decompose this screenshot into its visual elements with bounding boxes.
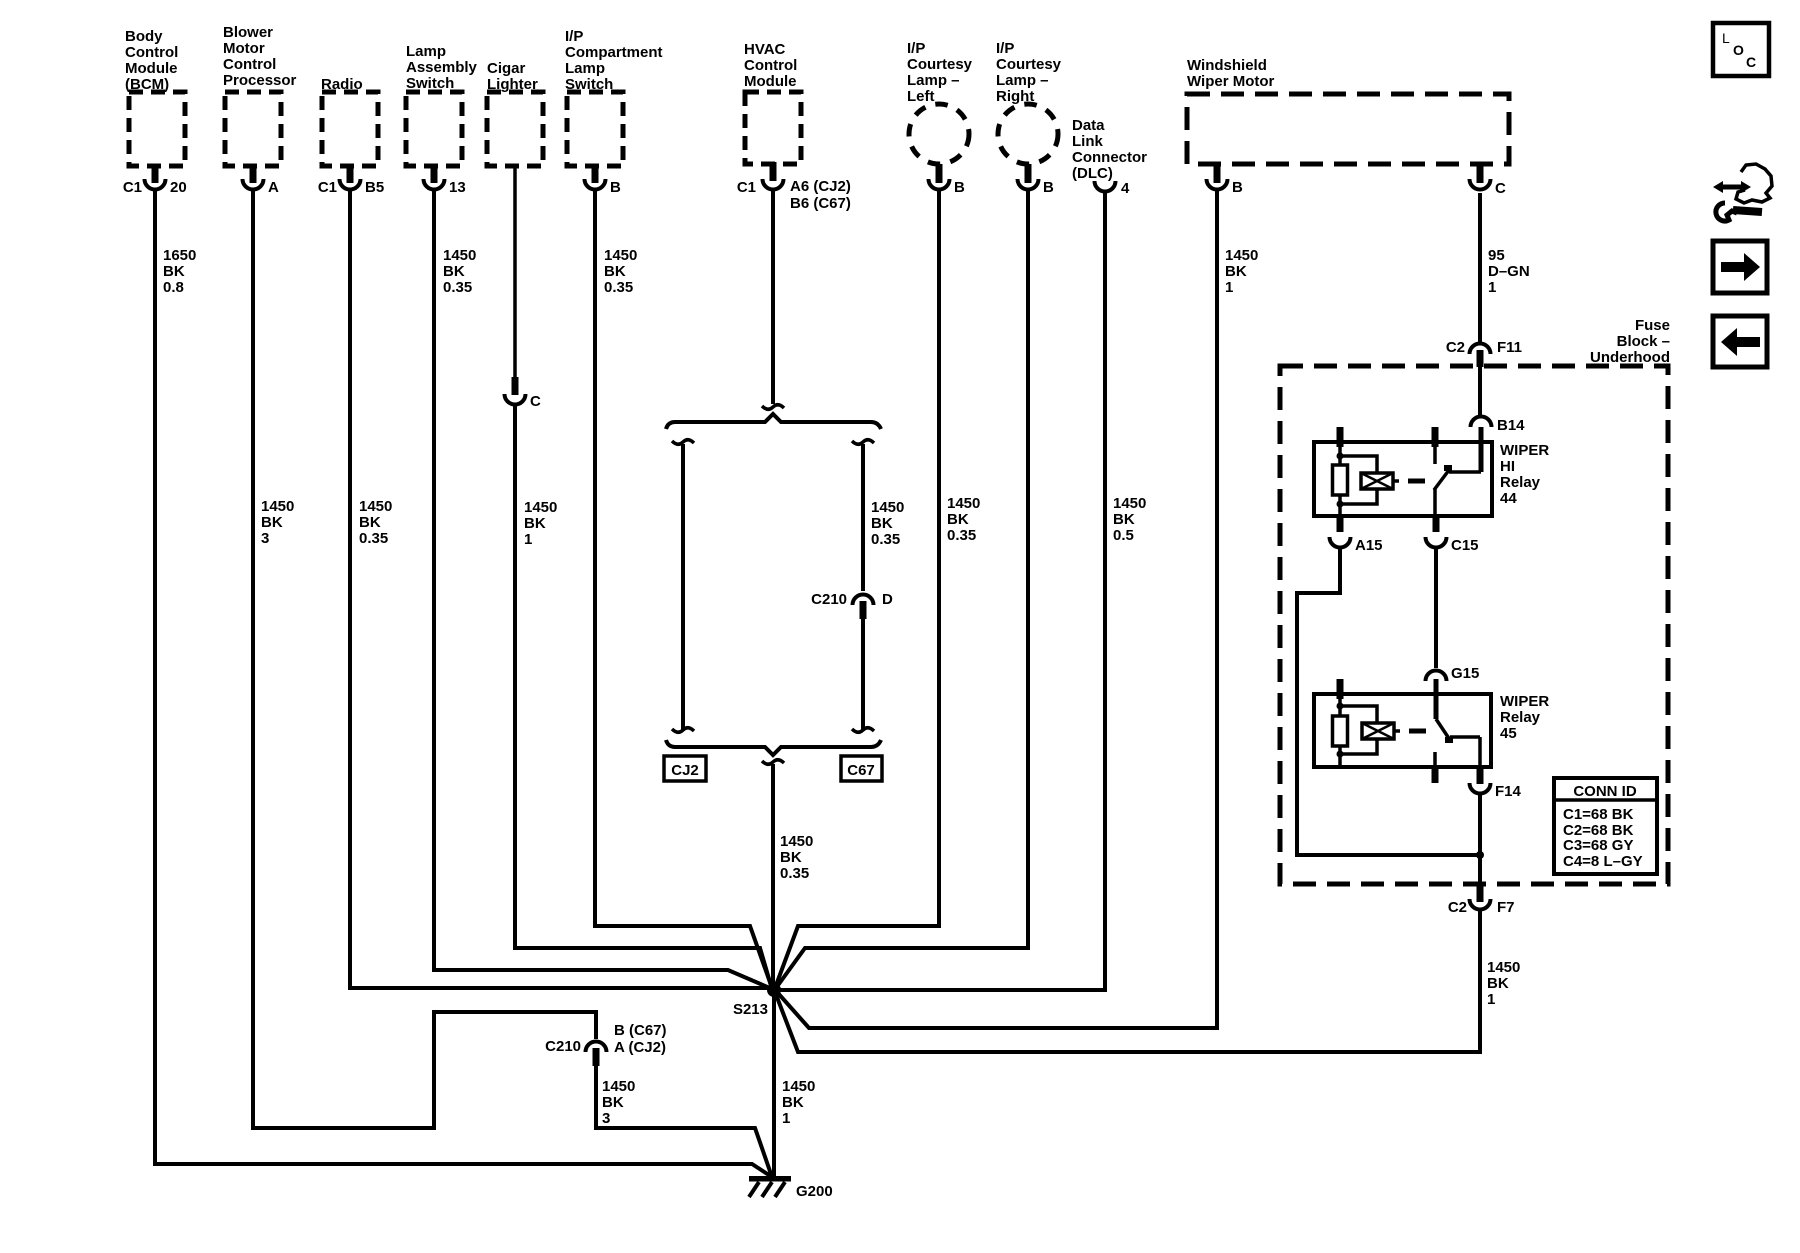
svg-text:Wiper Motor: Wiper Motor [1187,73,1275,90]
svg-text:HVAC: HVAC [744,41,786,58]
wire A15 to F14 junction [1297,548,1478,855]
wire F7 to S213 [775,910,1480,1052]
svg-text:BK: BK [782,1094,804,1111]
wire label 1450 BK 3 [261,498,294,547]
svg-text:B: B [610,179,621,196]
svg-text:BK: BK [443,263,465,280]
connector C2 pin F11 [1446,339,1522,367]
svg-text:Control: Control [744,57,797,74]
wire courtesy right to S213 [776,191,1028,988]
svg-text:B: B [1232,179,1243,196]
relay 44 dashed link [1408,479,1425,484]
courtesy left connector pin B [929,164,966,196]
svg-text:Block –: Block – [1617,333,1670,350]
svg-text:1650: 1650 [163,247,196,264]
svg-text:Control: Control [223,56,276,73]
C67 tag box [841,756,882,781]
svg-text:Relay: Relay [1500,474,1541,491]
HVAC connector C1 pins A6/B6 [737,162,851,212]
connector pin C15 [1426,537,1479,554]
svg-text:0.35: 0.35 [871,531,900,548]
svg-text:C1: C1 [123,179,142,196]
relay 44 pin C15 stub [1433,516,1440,532]
svg-text:1: 1 [1488,279,1496,296]
wire merged HVAC to S213 [771,764,775,988]
radio box [322,92,378,166]
svg-text:4: 4 [1121,180,1130,197]
relay 44 switch [1432,427,1482,516]
svg-text:BK: BK [602,1094,624,1111]
wire label 1450 BK 0.35 radio [359,498,392,547]
svg-text:C: C [1746,54,1756,70]
svg-text:0.5: 0.5 [1113,527,1134,544]
svg-text:0.35: 0.35 [359,530,388,547]
svg-text:BK: BK [359,514,381,531]
wire cigar lighter upper [513,166,517,378]
relay 45 pin F14 stub [1477,767,1484,784]
svg-text:Windshield: Windshield [1187,57,1267,74]
wire C67 branch upper [861,444,865,591]
connector pin A15 [1330,537,1383,554]
svg-text:Body: Body [125,28,163,45]
wire C210 to ground [596,1065,772,1177]
brace merge bottom [666,740,881,755]
svg-text:Lamp: Lamp [406,43,446,60]
relay 44 coil circuit [1337,442,1378,516]
svg-text:1450: 1450 [871,499,904,516]
svg-text:D–GN: D–GN [1488,263,1530,280]
svg-text:1450: 1450 [524,499,557,516]
body control module (BCM) label [125,28,178,93]
svg-text:1: 1 [1225,279,1233,296]
wire radio to S213 [350,191,768,988]
relay 45 dashed link [1409,729,1426,734]
diagnostic icon arrows and wrench [1713,164,1772,221]
HVAC control module box [745,92,801,164]
wire label 1450 BK 1 F7 [1487,959,1520,1008]
svg-text:3: 3 [602,1110,610,1127]
wire break curl CJ2 branch top [672,440,694,445]
svg-text:CONN ID: CONN ID [1573,783,1637,800]
svg-text:BK: BK [1225,263,1247,280]
wire label 1450 BK 0.35 courtesy [947,495,980,544]
svg-text:20: 20 [170,179,187,196]
svg-text:1450: 1450 [443,247,476,264]
left arrow icon box [1713,316,1767,367]
svg-text:B5: B5 [365,179,384,196]
wire F11 to B14 [1478,367,1482,416]
wire S213 to ground [772,990,776,1176]
wire label 1450 BK 0.35 C67 branch [871,499,904,548]
relay 44 pin A15 stub [1337,516,1344,532]
wire lamp switch to S213 [434,191,772,989]
radio label [321,76,363,93]
svg-text:1450: 1450 [602,1078,635,1095]
svg-text:1450: 1450 [782,1078,815,1095]
svg-text:A (CJ2): A (CJ2) [614,1039,666,1056]
wire label 1450 BK 3 lower [602,1078,635,1127]
svg-text:BK: BK [524,515,546,532]
blower motor control processor label [223,24,297,89]
svg-text:I/P: I/P [907,40,925,57]
DLC connector pin 4 [1095,180,1131,197]
svg-text:Cigar: Cigar [487,60,526,77]
svg-text:HI: HI [1500,458,1515,475]
svg-text:95: 95 [1488,247,1505,264]
svg-text:BK: BK [163,263,185,280]
svg-text:A15: A15 [1355,537,1383,554]
connector pin G15 [1426,665,1480,682]
svg-text:Lamp: Lamp [565,60,605,77]
BCM connector C1 pin 20 [123,164,187,196]
svg-text:I/P: I/P [565,28,583,45]
I/P courtesy lamp right label [996,40,1062,105]
svg-text:C: C [530,393,541,410]
svg-text:1: 1 [524,531,532,548]
wire label 1450 BK 0.35 lamp [443,247,476,296]
svg-text:Left: Left [907,88,935,105]
svg-text:C210: C210 [811,591,847,608]
relay 45 box [1314,694,1491,767]
connector C2 pin F7 [1448,884,1515,916]
I/P switch connector pin B [585,164,622,196]
svg-text:0.35: 0.35 [604,279,633,296]
I/P courtesy lamp right circle [998,104,1058,164]
wire label 95 D-GN 1 [1488,247,1530,296]
svg-text:Compartment: Compartment [565,44,663,61]
svg-text:G15: G15 [1451,665,1479,682]
svg-text:Fuse: Fuse [1635,317,1670,334]
relay 44 box [1314,442,1492,516]
I/P courtesy lamp left circle [909,104,969,164]
CONN ID table [1554,778,1657,874]
lamp assembly switch label [406,43,478,92]
svg-text:L: L [1722,30,1730,46]
svg-text:C2: C2 [1446,339,1465,356]
wire break curl HVAC [762,405,784,410]
svg-text:Relay: Relay [1500,709,1541,726]
svg-text:BK: BK [1487,975,1509,992]
courtesy right connector pin B [1018,164,1055,196]
wire cigar to S213 [515,405,772,989]
lamp switch connector pin 13 [424,164,466,196]
wire C67 branch lower [861,618,865,731]
svg-text:BK: BK [261,514,283,531]
svg-text:B (C67): B (C67) [614,1022,667,1039]
svg-text:Assembly: Assembly [406,59,478,76]
svg-text:G200: G200 [796,1183,833,1200]
windshield wiper motor box [1187,94,1509,164]
right arrow icon box [1713,241,1767,293]
wire break curl CJ2 branch bottom [672,728,694,733]
I/P courtesy lamp left label [907,40,973,105]
relay 45 coil circuit [1337,694,1378,767]
svg-text:0.35: 0.35 [780,865,809,882]
svg-text:CJ2: CJ2 [671,762,699,779]
svg-text:0.35: 0.35 [947,527,976,544]
blower motor control processor box [225,92,281,166]
wiper motor connector pin B [1207,162,1244,196]
svg-text:1450: 1450 [1487,959,1520,976]
relay 44 resistor [1333,465,1348,495]
svg-text:BK: BK [947,511,969,528]
wire label 1450 BK 0.35 ip switch [604,247,637,296]
svg-text:B14: B14 [1497,417,1525,434]
cigar lighter label [487,60,538,93]
svg-text:Module: Module [744,73,797,90]
wire B14 into relay 44 [1479,427,1484,472]
splice S213 [733,983,781,1018]
wire courtesy left to S213 [775,191,939,988]
svg-text:WIPER: WIPER [1500,693,1549,710]
svg-text:Underhood: Underhood [1590,349,1670,366]
svg-text:C3=68 GY: C3=68 GY [1563,837,1633,854]
svg-text:I/P: I/P [996,40,1014,57]
svg-text:Link: Link [1072,133,1103,150]
svg-text:0.8: 0.8 [163,279,184,296]
data link connector label [1072,117,1147,182]
svg-text:S213: S213 [733,1001,768,1018]
wire label 1450 BK 1 cigar [524,499,557,548]
svg-text:BK: BK [871,515,893,532]
connector pin F14 [1470,783,1522,800]
svg-text:O: O [1733,42,1744,58]
svg-text:Courtesy: Courtesy [907,56,973,73]
lamp assembly switch box [406,92,462,166]
connector C210 pins B/A [545,1022,666,1066]
relay 45 coil feed pin top [1337,679,1344,699]
svg-text:C210: C210 [545,1038,581,1055]
svg-text:C: C [1495,180,1506,197]
svg-text:45: 45 [1500,725,1517,742]
wire blower to C210 [253,191,596,1128]
svg-text:1450: 1450 [780,833,813,850]
connector C210 pin D [811,591,893,619]
I/P compartment lamp switch box [567,92,623,166]
I/P compartment lamp switch label [565,28,663,93]
relay 45 label WIPER Relay 45 [1500,693,1549,742]
svg-text:D: D [882,591,893,608]
svg-text:Lamp –: Lamp – [996,72,1049,89]
svg-text:WIPER: WIPER [1500,442,1549,459]
svg-text:0.35: 0.35 [443,279,472,296]
svg-text:BK: BK [604,263,626,280]
connector pin B14 [1471,417,1526,435]
svg-text:Lamp –: Lamp – [907,72,960,89]
wire label 1450 BK 0.35 merged [780,833,813,882]
svg-text:B: B [1043,179,1054,196]
svg-text:(DLC): (DLC) [1072,165,1113,182]
svg-text:B6 (C67): B6 (C67) [790,195,851,212]
svg-text:1: 1 [782,1110,790,1127]
radio connector C1 pin B5 [318,164,384,196]
svg-text:F14: F14 [1495,783,1522,800]
relay 44 coil feed pin top [1337,427,1344,447]
relay 44 label WIPER HI Relay 44 [1500,442,1549,507]
relay 45 switch [1435,719,1480,767]
svg-text:Courtesy: Courtesy [996,56,1062,73]
svg-text:Processor: Processor [223,72,297,89]
svg-text:1450: 1450 [1225,247,1258,264]
svg-text:Data: Data [1072,117,1105,134]
windshield wiper motor label [1187,57,1275,90]
wire G15 into relay 45 [1434,679,1439,719]
svg-text:1450: 1450 [1113,495,1146,512]
fuse block underhood label [1590,317,1670,366]
wire break curl C67 branch top [852,440,874,445]
svg-text:C15: C15 [1451,537,1479,554]
ground G200 [749,1176,833,1200]
svg-text:13: 13 [449,179,466,196]
brace split top [666,414,881,429]
wire HVAC down to break [771,191,775,404]
svg-text:BK: BK [780,849,802,866]
HVAC control module label [744,41,797,90]
svg-text:1450: 1450 [359,498,392,515]
wire F14 down to fuse box edge [1478,794,1482,884]
wire BCM to ground [155,191,772,1177]
svg-text:BK: BK [1113,511,1135,528]
wire wiper motor C to F11 [1478,193,1482,345]
wire DLC to S213 [780,192,1105,990]
svg-text:1450: 1450 [947,495,980,512]
wire break curl merged top [762,760,784,765]
svg-text:Motor: Motor [223,40,265,57]
svg-text:C1: C1 [318,179,337,196]
svg-text:C1: C1 [737,179,756,196]
body control module (BCM) box [129,92,185,166]
svg-text:A: A [268,179,279,196]
relay 45 resistor [1333,716,1348,746]
LOC icon box [1713,23,1769,76]
svg-text:Control: Control [125,44,178,61]
relay 45 coil box [1362,723,1400,739]
svg-text:F11: F11 [1497,339,1522,356]
wire label 1450 BK 0.5 DLC [1113,495,1146,544]
svg-text:C1=68 BK: C1=68 BK [1563,806,1634,823]
svg-text:Module: Module [125,60,178,77]
wire break curl C67 branch bottom [852,728,874,733]
wire I/P switch to S213 [595,191,772,988]
junction dot F14/A15 [1476,851,1484,859]
cigar connector pin C [505,377,542,410]
svg-text:C2: C2 [1448,899,1467,916]
wire label 1450 BK 1 ground [782,1078,815,1127]
wire CJ2 branch [681,444,685,731]
svg-text:Connector: Connector [1072,149,1147,166]
blower connector pin A [243,164,280,196]
svg-text:Blower: Blower [223,24,273,41]
relay 45 unused pin stub bottom [1432,767,1439,783]
svg-text:C4=8 L–GY: C4=8 L–GY [1563,853,1643,870]
fuse block underhood dashed box [1280,366,1668,884]
svg-text:C67: C67 [847,762,875,779]
relay 44 coil box [1361,473,1399,489]
svg-text:A6 (CJ2): A6 (CJ2) [790,178,851,195]
wire label 1650 BK 0.8 [163,247,196,296]
cigar lighter box [487,92,543,166]
svg-text:1450: 1450 [604,247,637,264]
CJ2 tag box [664,756,706,781]
wire C15 to G15 [1434,548,1438,668]
svg-text:3: 3 [261,530,269,547]
wiper motor connector pin C [1470,162,1507,197]
svg-text:Switch: Switch [406,75,454,92]
wire wiper motor B to S213 [777,191,1217,1028]
svg-text:44: 44 [1500,490,1517,507]
svg-text:B: B [954,179,965,196]
svg-text:F7: F7 [1497,899,1515,916]
wire label 1450 BK 1 wiper B [1225,247,1258,296]
svg-text:1450: 1450 [261,498,294,515]
svg-text:1: 1 [1487,991,1495,1008]
